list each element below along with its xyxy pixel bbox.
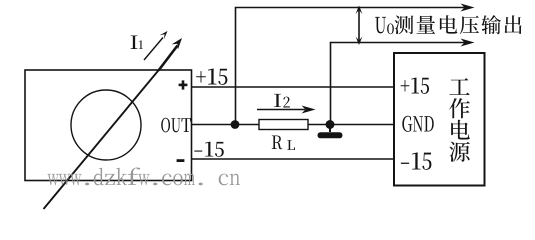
power supply box: [394, 53, 485, 186]
wire OUT/GND: [192, 124, 395, 126]
label +15 (left): [196, 69, 227, 85]
pin label +: [179, 80, 188, 89]
arrowhead top output wire: [461, 4, 475, 12]
riser wire from OUT node to top output: [236, 8, 467, 125]
label 测量电压输出 (measured voltage output): [394, 15, 521, 34]
primary conductor diagonal wire: [44, 69, 161, 210]
current arrow I1 (thick): [159, 38, 183, 71]
label 工作电源 (working power supply), vertical: [449, 78, 470, 162]
power pin -15: [401, 152, 432, 169]
riser wire from ground node to second output: [331, 43, 467, 125]
pin label OUT: [161, 118, 191, 133]
current arrow I1 (thin): [144, 31, 168, 60]
watermark www.dzkfw.com.cn: [47, 167, 239, 185]
resistor RL body: [259, 120, 308, 130]
power pin GND: [402, 116, 433, 132]
ground symbol: [318, 125, 343, 139]
current arrow I2: [257, 106, 316, 114]
label I2: [274, 94, 290, 108]
label I1: [131, 35, 143, 49]
power pin +15: [401, 78, 429, 94]
wire +15 (left box to power box): [192, 86, 395, 88]
label U0: [375, 17, 394, 34]
node junction at ground: [326, 120, 335, 129]
node junction at OUT: [231, 120, 240, 129]
sensor circle: [71, 90, 141, 160]
left box (current sensor module): [25, 70, 192, 181]
wire -15: [192, 158, 395, 160]
U0 measurement double arrow: [356, 6, 363, 46]
label -15 (left): [194, 142, 223, 157]
arrowhead second output wire: [461, 39, 475, 47]
label RL: [272, 135, 295, 150]
pin label minus: [177, 159, 185, 162]
